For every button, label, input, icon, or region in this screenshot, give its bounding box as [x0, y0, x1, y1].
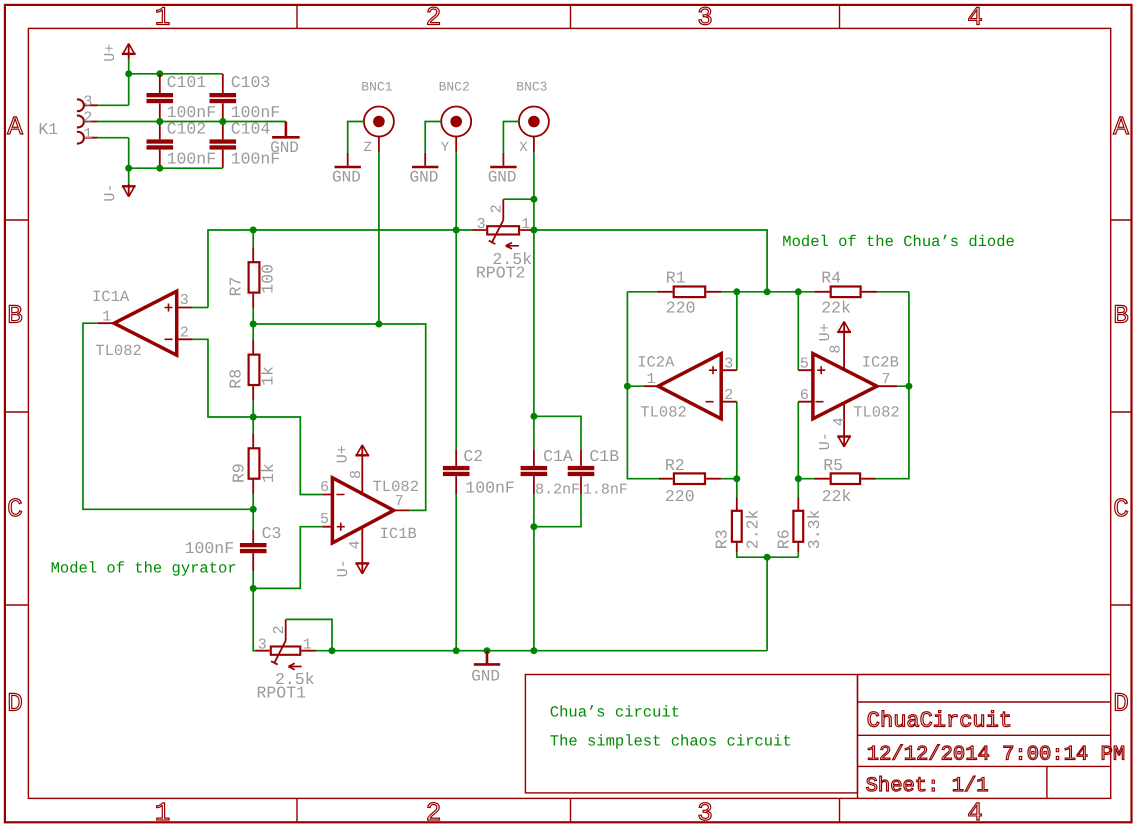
svg-text:22k: 22k: [822, 487, 852, 506]
wire net main rail y230: [208, 230, 767, 308]
frame column tick 2|3 bottom: [570, 798, 572, 822]
svg-text:100nF: 100nF: [167, 149, 217, 168]
wire net R5 left: [798, 478, 814, 480]
svg-text:D: D: [7, 689, 23, 719]
svg-text:2: 2: [426, 798, 442, 828]
ground GND main: [471, 651, 500, 686]
capacitor C3: [185, 524, 282, 571]
svg-text:BNC2: BNC2: [439, 79, 470, 94]
wire net R7 top: [252, 230, 254, 248]
wire net IC2A out stub: [627, 385, 644, 387]
resistor R1: [657, 269, 721, 318]
svg-text:BNC3: BNC3: [516, 79, 547, 94]
svg-text:U+: U+: [102, 44, 119, 62]
junction X rail bottom: [530, 647, 537, 654]
junction rail Y: [453, 227, 460, 234]
svg-text:100nF: 100nF: [185, 539, 235, 558]
junction R3 R6: [764, 554, 771, 561]
ground GND BNC2: [409, 153, 438, 187]
wire net mid row (R7 R8 Z IC1B out): [253, 308, 426, 510]
svg-text:R2: R2: [665, 456, 685, 475]
wire net X vertical: [533, 152, 535, 651]
svg-text:C103: C103: [231, 73, 271, 92]
wire net Y vertical: [455, 152, 457, 651]
opamp IC2B: [798, 323, 899, 446]
wire net C1B parallel loop: [534, 416, 581, 526]
junction rail C2: [453, 647, 460, 654]
title comment box outline: [525, 675, 857, 793]
junction rail R7: [250, 227, 257, 234]
ground GND K1: [270, 122, 300, 157]
wire net R2 right: [721, 478, 737, 480]
connector BNC1: [361, 79, 394, 152]
junction R2 R3: [733, 475, 740, 482]
wire net Vd top row: [627, 291, 909, 293]
power V- supply IC2B: [817, 432, 851, 450]
frame column tick 3|4 top: [839, 5, 841, 28]
frame column tick 3|4 bottom: [839, 798, 841, 822]
svg-text:R3: R3: [713, 529, 732, 549]
wire net BNC2 shield to GND: [425, 122, 441, 153]
svg-text:GND: GND: [471, 668, 500, 686]
junction R5 R6: [795, 475, 802, 482]
wire net Z vertical: [378, 152, 380, 324]
svg-text:R9: R9: [230, 463, 249, 483]
wire net R3 R6 to rail: [737, 552, 799, 557]
svg-text:6: 6: [320, 479, 329, 496]
svg-text:TL082: TL082: [373, 478, 420, 496]
wire net R9 bottom C3 top: [252, 494, 254, 530]
svg-text:12/12/2014 7:00:14 PM: 12/12/2014 7:00:14 PM: [867, 743, 1125, 766]
svg-text:C2: C2: [463, 447, 483, 466]
svg-text:3.3k: 3.3k: [805, 509, 824, 549]
junction V- rail a: [125, 165, 132, 172]
resistor R5: [815, 456, 876, 506]
capacitor C104: [210, 119, 281, 168]
svg-text:TL082: TL082: [640, 403, 687, 421]
junction R9 C3: [250, 506, 257, 513]
junction V+ rail b: [156, 70, 163, 77]
svg-text:BNC1: BNC1: [361, 79, 392, 94]
svg-text:Chua’s circuit: Chua’s circuit: [550, 704, 680, 722]
svg-text:2: 2: [724, 387, 733, 404]
svg-text:B: B: [7, 301, 23, 331]
frame row tick C|D left: [5, 604, 28, 606]
svg-text:1: 1: [155, 3, 171, 33]
opamp IC1A: [92, 288, 193, 360]
wire net C3 bottom IC1B pin5 loop: [253, 527, 322, 651]
svg-text:2: 2: [489, 204, 506, 213]
svg-text:U-: U-: [102, 184, 119, 202]
capacitor C101: [147, 73, 217, 122]
svg-text:22k: 22k: [821, 299, 851, 318]
svg-text:220: 220: [666, 299, 696, 318]
junction top row R1: [733, 288, 740, 295]
power V- supply IC1B: [335, 559, 369, 577]
wire net IC2B pin5 column: [797, 292, 799, 370]
frame row tick A|B right: [1111, 219, 1131, 221]
svg-text:U+: U+: [335, 445, 352, 463]
svg-text:U-: U-: [335, 559, 352, 577]
svg-text:C101: C101: [167, 73, 207, 92]
svg-text:3: 3: [697, 3, 713, 33]
svg-text:Sheet: 1/1: Sheet: 1/1: [866, 775, 989, 798]
svg-text:K1: K1: [38, 120, 58, 139]
svg-text:4: 4: [967, 3, 983, 33]
svg-text:IC2A: IC2A: [637, 354, 675, 372]
wire net AC mid rail (K1 pin2): [98, 121, 286, 123]
svg-text:C3: C3: [262, 524, 282, 543]
wire net IC1A pin3: [193, 307, 208, 309]
opamp IC1B: [320, 446, 419, 573]
junction X rail: [530, 227, 537, 234]
svg-text:IC1B: IC1B: [380, 525, 417, 543]
svg-text:2: 2: [83, 110, 92, 127]
svg-text:100nF: 100nF: [465, 478, 515, 497]
junction X wiper: [530, 196, 537, 203]
wire net BNC3 shield to GND: [503, 122, 519, 153]
svg-text:4: 4: [831, 417, 848, 426]
svg-text:1.8nF: 1.8nF: [583, 481, 628, 498]
junction mid row R7: [250, 321, 257, 328]
svg-text:C: C: [1113, 494, 1129, 524]
frame row tick A|B left: [5, 219, 28, 221]
capacitor C102: [147, 119, 217, 168]
trimmer RPOT2: [472, 199, 533, 282]
svg-text:2: 2: [180, 324, 189, 341]
wire net IC2A out column: [627, 292, 659, 479]
svg-text:1: 1: [303, 636, 312, 653]
svg-text:R8: R8: [227, 369, 246, 389]
resistor R2: [659, 456, 721, 506]
svg-text:2: 2: [426, 3, 442, 33]
svg-text:R7: R7: [227, 277, 246, 297]
power V+ supply IC2B: [817, 322, 851, 342]
junction top row center: [764, 288, 771, 295]
junction mid rail a: [156, 118, 163, 125]
svg-text:5: 5: [320, 511, 329, 528]
svg-text:R1: R1: [666, 269, 686, 288]
wire net RPOT1 wiper loop: [286, 619, 332, 650]
svg-text:TL082: TL082: [95, 342, 142, 360]
junction C3 bottom: [250, 585, 257, 592]
svg-text:D: D: [1113, 689, 1129, 719]
svg-text:GND: GND: [409, 169, 438, 187]
wire net BNC1 shield to GND: [348, 122, 364, 153]
power V+ supply K1: [102, 44, 136, 62]
wire net RPOT2 wiper loop: [503, 198, 534, 200]
junction mid rail b: [219, 118, 226, 125]
connector BNC2: [439, 79, 472, 152]
capacitor C1A: [521, 447, 581, 499]
svg-text:8: 8: [348, 470, 365, 479]
svg-text:GND: GND: [332, 169, 361, 187]
svg-text:B: B: [1113, 301, 1129, 331]
svg-text:C1A: C1A: [543, 447, 573, 466]
junction rail GND: [484, 647, 491, 654]
junction X C1A bottom: [530, 523, 537, 530]
capacitor C103: [210, 73, 281, 122]
wire net IC1A pin2 to R8 bottom and IC1B pin6: [193, 339, 323, 494]
svg-text:1: 1: [102, 309, 111, 326]
junction V- rail b: [156, 165, 163, 172]
svg-text:7: 7: [882, 371, 891, 388]
svg-text:3: 3: [697, 798, 713, 828]
svg-text:ChuaCircuit: ChuaCircuit: [867, 709, 1012, 734]
wire net IC2A pin3 column: [736, 292, 738, 370]
svg-text:U+: U+: [817, 323, 834, 341]
resistor R6: [774, 498, 824, 553]
svg-text:RPOT1: RPOT1: [257, 683, 307, 702]
capacitor C1B: [568, 447, 628, 499]
frame row tick B|C left: [5, 411, 28, 413]
svg-text:3: 3: [180, 292, 189, 309]
svg-text:RPOT2: RPOT2: [476, 263, 526, 282]
frame row tick C|D right: [1111, 604, 1131, 606]
svg-text:3: 3: [724, 356, 733, 373]
ground GND BNC1: [332, 153, 361, 187]
svg-text:8: 8: [828, 345, 845, 354]
svg-text:R6: R6: [774, 529, 793, 549]
svg-text:1: 1: [647, 371, 656, 388]
trimmer RPOT1: [255, 619, 316, 702]
resistor R9: [230, 433, 279, 493]
svg-text:1: 1: [521, 216, 530, 233]
resistor R7: [227, 248, 278, 309]
svg-text:4: 4: [347, 540, 364, 549]
svg-text:2: 2: [271, 625, 288, 634]
svg-text:6: 6: [800, 387, 809, 404]
svg-text:U-: U-: [817, 432, 834, 450]
power V- supply K1: [102, 184, 136, 202]
svg-text:Z: Z: [364, 140, 372, 156]
resistor R8: [227, 339, 278, 400]
frame column tick 2|3 top: [570, 5, 572, 28]
svg-text:GND: GND: [488, 169, 517, 187]
title table outline: [858, 675, 1111, 799]
svg-text:A: A: [1113, 112, 1129, 142]
svg-text:R5: R5: [823, 456, 843, 475]
junction IC2B out: [905, 383, 912, 390]
junction rail RPOT1: [329, 647, 336, 654]
svg-text:220: 220: [665, 487, 695, 506]
capacitor C2: [443, 447, 515, 498]
wire net IC2B out column: [876, 292, 909, 479]
junction X C1A top: [530, 413, 537, 420]
junction top row R4: [795, 288, 802, 295]
svg-text:1k: 1k: [258, 366, 277, 386]
svg-text:TL082: TL082: [853, 403, 900, 421]
wire net V- (K1 bottom rail): [98, 138, 223, 184]
svg-text:The simplest chaos circuit: The simplest chaos circuit: [550, 733, 792, 751]
svg-text:Y: Y: [441, 140, 450, 156]
svg-text:3: 3: [477, 216, 486, 233]
svg-text:R4: R4: [821, 269, 841, 288]
svg-text:1: 1: [155, 798, 171, 828]
frame column tick 1|2 top: [296, 5, 298, 28]
svg-text:5: 5: [800, 356, 809, 373]
opamp IC2A: [637, 354, 737, 422]
resistor R3: [713, 498, 763, 553]
junction IC2A out: [624, 383, 631, 390]
svg-text:1k: 1k: [259, 463, 278, 483]
svg-text:X: X: [519, 140, 528, 156]
svg-text:C1B: C1B: [589, 447, 619, 466]
svg-text:IC1A: IC1A: [92, 288, 130, 306]
power V+ supply IC1B: [335, 445, 370, 463]
junction mid row Z: [375, 321, 382, 328]
svg-text:1: 1: [83, 126, 92, 143]
svg-text:GND: GND: [270, 139, 299, 157]
svg-text:Model of the Chua’s diode: Model of the Chua’s diode: [782, 233, 1015, 251]
wire net IC1A out feedback: [83, 323, 253, 509]
resistor R4: [814, 269, 877, 318]
svg-text:3: 3: [258, 637, 267, 654]
wire net V+ (K1 top rail): [98, 59, 223, 105]
wire net IC2B pin6 to R6: [797, 402, 799, 498]
svg-text:4: 4: [967, 798, 983, 828]
svg-text:3: 3: [83, 93, 92, 110]
svg-text:Model of the gyrator: Model of the gyrator: [51, 560, 237, 578]
svg-text:8.2nF: 8.2nF: [535, 481, 580, 498]
ground GND BNC3: [488, 153, 517, 187]
svg-text:A: A: [7, 112, 23, 142]
svg-text:100: 100: [258, 264, 277, 294]
connector K1: [38, 93, 97, 143]
junction V+ rail a: [125, 70, 132, 77]
svg-text:IC2B: IC2B: [862, 354, 899, 372]
svg-text:C: C: [7, 494, 23, 524]
junction R8 R9: [250, 414, 257, 421]
frame column tick 1|2 bottom: [296, 798, 298, 822]
wire net IC2A pin2 to R3: [736, 402, 738, 498]
wire net bottom rail: [255, 557, 767, 651]
frame row tick B|C right: [1111, 411, 1131, 413]
connector BNC3: [516, 79, 549, 152]
svg-text:2.2k: 2.2k: [744, 509, 763, 549]
